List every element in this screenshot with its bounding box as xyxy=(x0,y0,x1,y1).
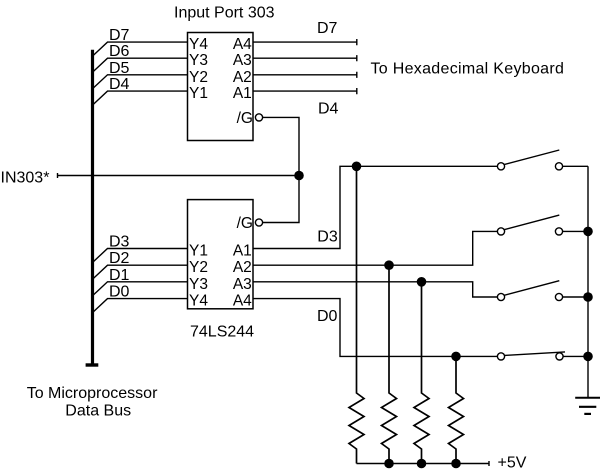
svg-text:Y3: Y3 xyxy=(189,52,208,69)
svg-text:D0: D0 xyxy=(109,284,130,301)
wire D5 bus entry xyxy=(93,75,188,89)
svg-text:A3: A3 xyxy=(233,52,252,69)
wire D3 net: A1 to switch S1 xyxy=(253,166,497,248)
wire A2 output stub xyxy=(253,72,357,78)
microprocessor data bus (thick vertical) xyxy=(86,50,99,365)
junction D3/R1 xyxy=(352,162,362,172)
svg-text:A3: A3 xyxy=(233,276,252,293)
wire D1 bus entry xyxy=(93,282,188,296)
wire D6 bus entry xyxy=(93,58,188,72)
switch S1 xyxy=(497,150,588,170)
wire D3 bus entry xyxy=(93,249,188,263)
svg-text:To Hexadecimal Keyboard: To Hexadecimal Keyboard xyxy=(371,60,565,77)
junction R2/+5V xyxy=(384,459,394,469)
wire D1 net: A3 to switch S3 xyxy=(253,282,497,297)
svg-text:Y3: Y3 xyxy=(189,276,208,293)
wire +5V rail xyxy=(357,461,490,466)
svg-text:Y2: Y2 xyxy=(189,69,208,86)
svg-text:D0: D0 xyxy=(317,308,338,325)
svg-text:D5: D5 xyxy=(109,60,130,77)
svg-text:D4: D4 xyxy=(109,76,130,93)
resistor R2 xyxy=(382,265,397,463)
junction S3/ground bus xyxy=(583,292,593,302)
label: To Microprocessor Data Bus xyxy=(27,385,158,419)
switch S2 xyxy=(497,215,588,235)
wire D0 net: A4 to switch S4 xyxy=(253,299,497,357)
svg-text:D4: D4 xyxy=(318,101,339,118)
svg-text:Y4: Y4 xyxy=(189,36,208,53)
svg-text:Y2: Y2 xyxy=(189,259,208,276)
wire A1 output stub xyxy=(253,88,357,94)
svg-text:Y1: Y1 xyxy=(189,243,208,260)
junction D1/R3 xyxy=(417,277,427,287)
svg-text:74LS244: 74LS244 xyxy=(190,324,254,341)
wire ground bus (right vertical) xyxy=(587,166,589,397)
wire A4 output stub xyxy=(253,39,357,45)
resistor R1 xyxy=(349,166,364,463)
wire D7 bus entry xyxy=(93,42,188,56)
svg-text:Input Port 303: Input Port 303 xyxy=(174,4,275,21)
svg-text:A1: A1 xyxy=(233,243,252,260)
svg-text:A4: A4 xyxy=(233,293,252,310)
svg-text:A2: A2 xyxy=(233,259,252,276)
U1a /G enable bubble xyxy=(255,114,262,121)
wire IN303* xyxy=(58,173,300,178)
svg-text:Data Bus: Data Bus xyxy=(65,402,131,419)
svg-text:Y4: Y4 xyxy=(189,293,208,310)
junction enable net xyxy=(294,171,304,181)
svg-text:A1: A1 xyxy=(233,85,252,102)
junction D2/R2 xyxy=(384,260,394,270)
buffer U1a (Input Port 303, upper half 74LS244) xyxy=(188,33,254,141)
wire A3 output stub xyxy=(253,55,357,61)
svg-text:To Microprocessor: To Microprocessor xyxy=(27,385,158,402)
switch S4 (nearly closed) xyxy=(497,352,588,360)
svg-text:IN303*: IN303* xyxy=(1,170,50,187)
svg-text:/G: /G xyxy=(237,110,253,127)
junction S4/ground bus xyxy=(583,352,593,362)
wire D2 net: A2 to switch S2 xyxy=(253,231,497,265)
svg-text:D3: D3 xyxy=(317,228,338,245)
junction R3/+5V xyxy=(417,459,427,469)
wire D2 bus entry xyxy=(93,265,188,279)
svg-text:D7: D7 xyxy=(317,20,338,37)
wire D0 bus entry xyxy=(93,299,188,313)
svg-text:/G: /G xyxy=(237,215,253,232)
resistor R4 xyxy=(449,356,464,463)
switch S3 xyxy=(497,281,588,301)
svg-text:D6: D6 xyxy=(109,43,130,60)
resistor R3 xyxy=(414,282,429,464)
junction S2/ground bus xyxy=(583,227,593,237)
ground xyxy=(575,398,600,414)
svg-text:A4: A4 xyxy=(233,36,252,53)
svg-text:D1: D1 xyxy=(109,267,130,284)
svg-text:+5V: +5V xyxy=(498,455,527,472)
wire D4 bus entry xyxy=(93,91,188,105)
junction R4/+5V xyxy=(451,459,461,469)
junction D0/R4 xyxy=(451,352,461,362)
svg-text:A2: A2 xyxy=(233,69,252,86)
buffer U1b (lower half 74LS244) xyxy=(188,200,254,310)
svg-text:D7: D7 xyxy=(109,27,130,44)
U1b /G enable bubble xyxy=(255,219,262,226)
svg-text:D3: D3 xyxy=(109,234,130,251)
wire U1a /G to enable net xyxy=(263,117,299,222)
svg-text:Y1: Y1 xyxy=(189,85,208,102)
svg-text:D2: D2 xyxy=(109,250,130,267)
